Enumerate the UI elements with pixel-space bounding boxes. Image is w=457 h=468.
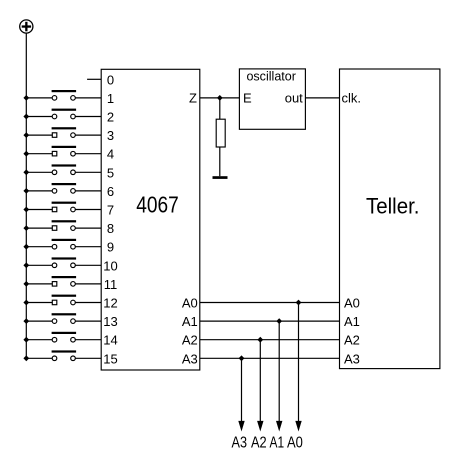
svg-text:4067: 4067 (136, 192, 179, 218)
svg-text:out: out (285, 91, 303, 106)
svg-text:0: 0 (107, 72, 114, 87)
svg-text:A2: A2 (344, 333, 360, 348)
svg-text:2: 2 (107, 110, 114, 125)
svg-text:14: 14 (103, 333, 117, 348)
svg-text:5: 5 (107, 165, 114, 180)
svg-text:A0: A0 (344, 296, 360, 311)
svg-text:E: E (243, 91, 252, 106)
svg-text:A3: A3 (182, 351, 198, 366)
svg-text:A2: A2 (182, 333, 198, 348)
svg-text:6: 6 (107, 184, 114, 199)
svg-text:A3: A3 (344, 351, 360, 366)
svg-text:7: 7 (107, 203, 114, 218)
svg-text:Teller.: Teller. (366, 194, 420, 219)
svg-text:1: 1 (107, 91, 114, 106)
svg-text:A0: A0 (182, 296, 198, 311)
svg-text:15: 15 (103, 351, 117, 366)
svg-text:3: 3 (107, 128, 114, 143)
svg-text:8: 8 (107, 221, 114, 236)
svg-text:A1: A1 (344, 314, 360, 329)
svg-text:A2: A2 (251, 435, 267, 452)
svg-text:A1: A1 (182, 314, 198, 329)
svg-text:Z: Z (189, 91, 197, 106)
svg-text:A1: A1 (270, 435, 285, 452)
svg-text:12: 12 (103, 296, 117, 311)
svg-text:oscillator: oscillator (246, 68, 296, 83)
svg-text:4: 4 (107, 147, 114, 162)
svg-text:9: 9 (107, 240, 114, 255)
svg-text:A0: A0 (287, 435, 303, 452)
svg-text:A3: A3 (232, 435, 248, 452)
svg-text:11: 11 (104, 277, 118, 292)
svg-text:13: 13 (103, 314, 117, 329)
svg-text:clk.: clk. (342, 91, 362, 106)
svg-text:10: 10 (103, 258, 117, 273)
